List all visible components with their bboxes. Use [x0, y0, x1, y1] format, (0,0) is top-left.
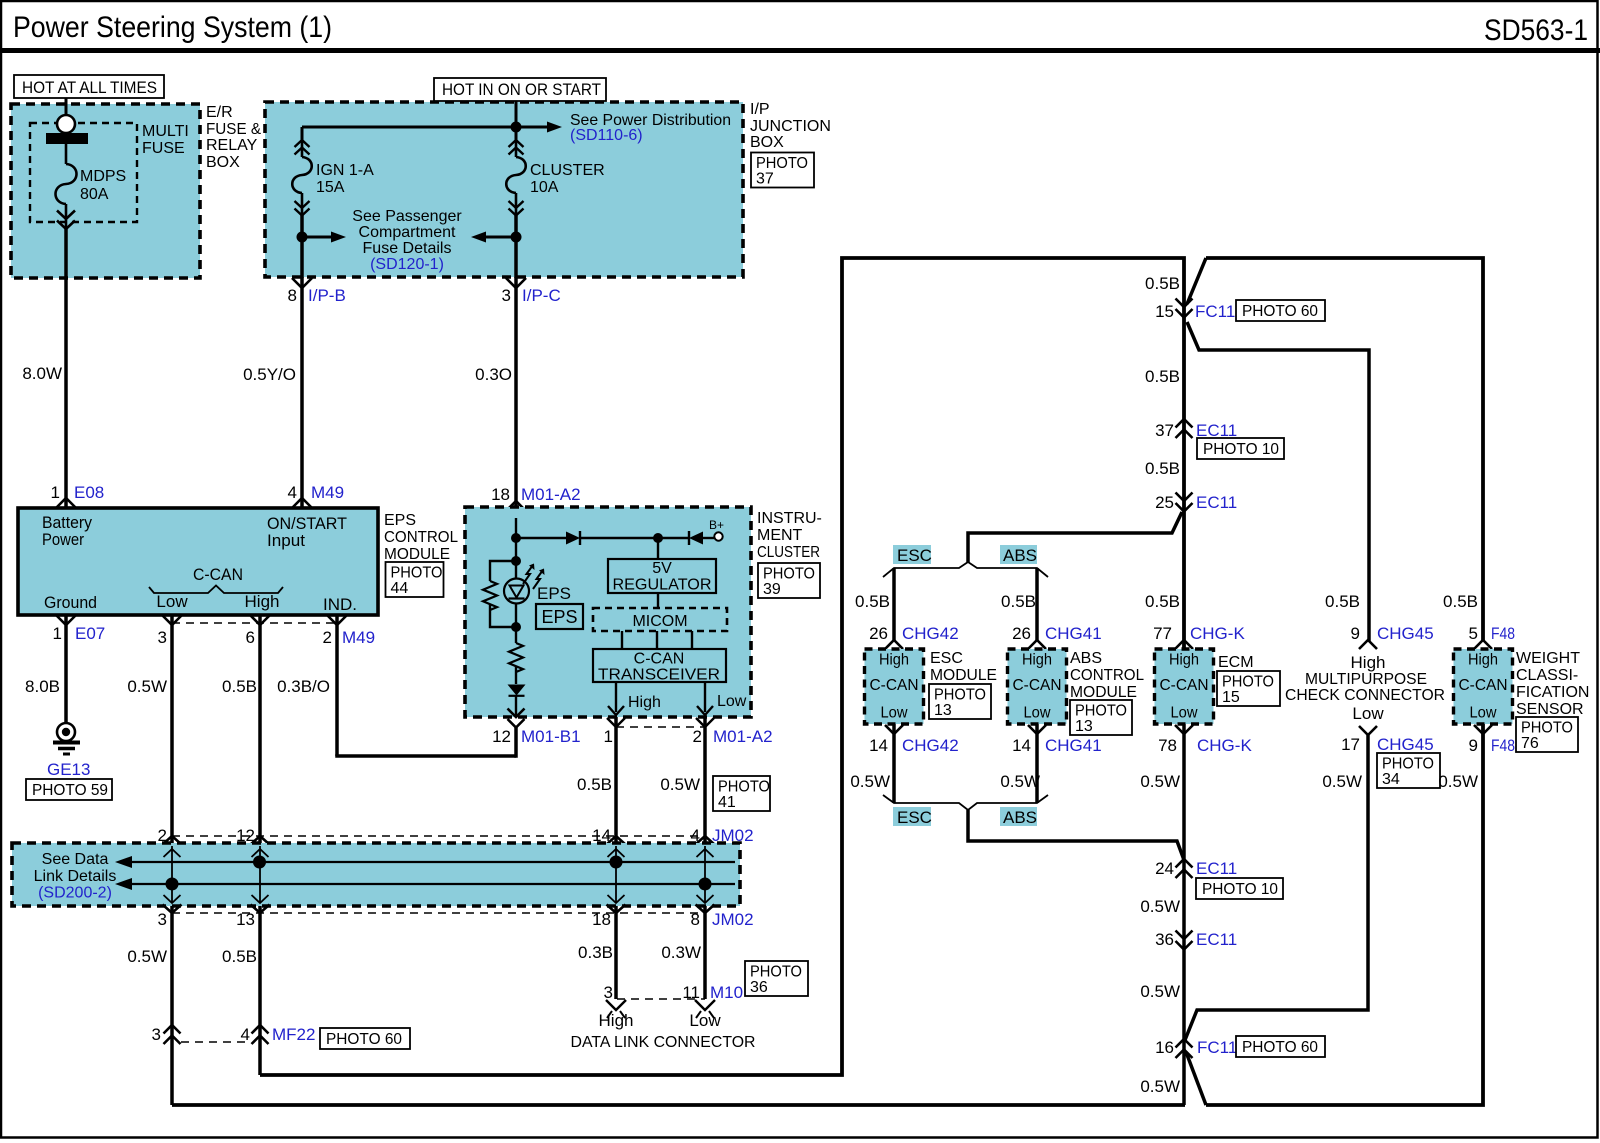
svg-text:M10: M10 — [710, 983, 743, 1002]
svg-text:REGULATOR: REGULATOR — [613, 577, 712, 594]
svg-text:39: 39 — [763, 581, 781, 598]
svg-text:36: 36 — [1155, 930, 1174, 949]
svg-text:C-CAN: C-CAN — [193, 565, 243, 584]
svg-text:0.5W: 0.5W — [660, 775, 700, 794]
svg-text:SD563-1: SD563-1 — [1484, 14, 1588, 47]
svg-text:10A: 10A — [530, 179, 559, 196]
svg-text:CHG41: CHG41 — [1045, 624, 1102, 643]
svg-text:High: High — [599, 1011, 634, 1030]
svg-text:FC11: FC11 — [1195, 302, 1235, 321]
svg-text:PHOTO 59: PHOTO 59 — [32, 782, 108, 799]
svg-text:26: 26 — [869, 624, 888, 643]
svg-text:Low: Low — [156, 592, 188, 611]
svg-text:HOT IN ON OR START: HOT IN ON OR START — [442, 80, 601, 99]
svg-text:EPS: EPS — [537, 584, 571, 603]
svg-text:MODULE: MODULE — [1070, 684, 1137, 701]
svg-text:M01-A2: M01-A2 — [521, 485, 581, 504]
svg-text:78: 78 — [1158, 736, 1177, 755]
svg-text:PHOTO: PHOTO — [1521, 720, 1573, 737]
svg-text:0.5W: 0.5W — [127, 677, 167, 696]
svg-text:0.5W: 0.5W — [1438, 772, 1478, 791]
svg-text:0.5W: 0.5W — [1140, 1077, 1180, 1096]
svg-text:Low: Low — [1470, 705, 1497, 722]
svg-text:ABS: ABS — [1070, 650, 1102, 667]
svg-text:3: 3 — [158, 910, 167, 929]
svg-text:F48: F48 — [1491, 624, 1515, 643]
svg-text:FUSE &: FUSE & — [206, 121, 261, 138]
svg-text:25: 25 — [1155, 493, 1174, 512]
svg-text:GE13: GE13 — [47, 760, 90, 779]
svg-text:Low: Low — [1024, 705, 1051, 722]
svg-text:C-CAN: C-CAN — [1459, 677, 1508, 694]
svg-text:2: 2 — [323, 628, 332, 647]
svg-text:MDPS: MDPS — [80, 168, 126, 185]
svg-text:Link Details: Link Details — [34, 868, 117, 885]
svg-text:CHG-K: CHG-K — [1190, 624, 1245, 643]
svg-text:IGN 1-A: IGN 1-A — [316, 162, 374, 179]
svg-text:FC11: FC11 — [1197, 1038, 1237, 1057]
svg-text:Low: Low — [1352, 704, 1384, 723]
svg-text:PHOTO: PHOTO — [763, 566, 815, 583]
svg-text:See Data: See Data — [42, 851, 109, 868]
svg-text:PHOTO: PHOTO — [1382, 756, 1434, 773]
svg-text:Fuse Details: Fuse Details — [363, 240, 452, 257]
svg-text:PHOTO: PHOTO — [1222, 674, 1274, 691]
svg-text:0.5B: 0.5B — [1145, 367, 1180, 386]
svg-text:EPS: EPS — [542, 607, 578, 627]
svg-text:PHOTO 10: PHOTO 10 — [1202, 881, 1278, 898]
svg-text:36: 36 — [750, 979, 768, 996]
svg-text:JUNCTION: JUNCTION — [750, 118, 831, 135]
svg-text:0.5B: 0.5B — [222, 677, 257, 696]
svg-text:M01-A2: M01-A2 — [713, 727, 773, 746]
svg-text:0.5W: 0.5W — [1140, 772, 1180, 791]
svg-text:EC11: EC11 — [1196, 930, 1237, 949]
svg-text:ESC: ESC — [897, 808, 932, 827]
svg-text:0.5B: 0.5B — [1145, 459, 1180, 478]
svg-text:1: 1 — [604, 727, 613, 746]
svg-text:76: 76 — [1521, 735, 1539, 752]
svg-text:0.3W: 0.3W — [661, 943, 701, 962]
svg-text:HOT AT ALL TIMES: HOT AT ALL TIMES — [22, 78, 157, 97]
svg-text:MULTIPURPOSE: MULTIPURPOSE — [1305, 671, 1427, 688]
svg-text:B+: B+ — [709, 518, 724, 532]
svg-text:BOX: BOX — [206, 154, 240, 171]
svg-text:Low: Low — [1171, 705, 1198, 722]
svg-text:C-CAN: C-CAN — [634, 651, 685, 668]
svg-text:RELAY: RELAY — [206, 137, 258, 154]
svg-text:FUSE: FUSE — [142, 140, 185, 157]
svg-text:0.5B: 0.5B — [1443, 592, 1478, 611]
svg-text:INSTRU-: INSTRU- — [757, 510, 822, 527]
svg-text:18: 18 — [491, 485, 510, 504]
svg-text:High: High — [879, 652, 909, 669]
svg-text:0.5W: 0.5W — [1322, 772, 1362, 791]
svg-text:C-CAN: C-CAN — [1160, 677, 1209, 694]
svg-text:MICOM: MICOM — [632, 613, 687, 630]
svg-text:SENSOR: SENSOR — [1516, 701, 1584, 718]
svg-text:ABS: ABS — [1003, 546, 1037, 565]
svg-text:M01-B1: M01-B1 — [521, 727, 581, 746]
svg-text:PHOTO: PHOTO — [718, 779, 770, 796]
svg-text:EPS: EPS — [384, 512, 416, 529]
svg-text:PHOTO 10: PHOTO 10 — [1203, 441, 1279, 458]
svg-text:Power: Power — [42, 530, 84, 549]
svg-text:CONTROL: CONTROL — [1070, 667, 1144, 684]
svg-text:26: 26 — [1012, 624, 1031, 643]
svg-text:8.0B: 8.0B — [25, 677, 60, 696]
svg-text:37: 37 — [756, 171, 774, 188]
svg-text:CLASSI-: CLASSI- — [1516, 667, 1578, 684]
svg-text:9: 9 — [1351, 624, 1360, 643]
svg-text:PHOTO: PHOTO — [756, 155, 808, 172]
svg-text:Low: Low — [717, 693, 747, 710]
svg-text:2: 2 — [693, 727, 702, 746]
svg-text:E/R: E/R — [206, 104, 233, 121]
svg-text:I/P: I/P — [750, 101, 770, 118]
svg-text:1: 1 — [53, 624, 62, 643]
svg-text:0.5W: 0.5W — [1140, 897, 1180, 916]
svg-text:ECM: ECM — [1218, 654, 1254, 671]
svg-text:CHG42: CHG42 — [902, 624, 959, 643]
svg-text:MF22: MF22 — [272, 1025, 315, 1044]
svg-text:ESC: ESC — [897, 546, 932, 565]
svg-text:0.3B/O: 0.3B/O — [277, 677, 330, 696]
svg-text:CHECK CONNECTOR: CHECK CONNECTOR — [1285, 687, 1445, 704]
svg-text:CONTROL: CONTROL — [384, 529, 458, 546]
svg-text:13: 13 — [1075, 718, 1093, 735]
svg-text:PHOTO 60: PHOTO 60 — [326, 1031, 402, 1048]
svg-text:77: 77 — [1153, 624, 1172, 643]
svg-text:CHG45: CHG45 — [1377, 624, 1434, 643]
svg-text:MODULE: MODULE — [384, 546, 450, 563]
svg-text:High: High — [1022, 652, 1052, 669]
svg-text:DATA LINK CONNECTOR: DATA LINK CONNECTOR — [571, 1034, 756, 1051]
svg-text:9: 9 — [1469, 736, 1478, 755]
svg-text:8: 8 — [288, 286, 297, 305]
svg-text:EC11: EC11 — [1196, 859, 1237, 878]
svg-text:14: 14 — [1012, 736, 1031, 755]
svg-text:3: 3 — [604, 983, 613, 1002]
svg-text:CHG45: CHG45 — [1377, 735, 1434, 754]
svg-text:CHG-K: CHG-K — [1197, 736, 1252, 755]
svg-text:8.0W: 8.0W — [22, 364, 62, 383]
svg-text:CLUSTER: CLUSTER — [530, 162, 605, 179]
svg-text:TRANSCEIVER: TRANSCEIVER — [598, 667, 720, 684]
svg-text:0.5B: 0.5B — [577, 775, 612, 794]
svg-text:0.5Y/O: 0.5Y/O — [243, 365, 296, 384]
svg-text:Low: Low — [881, 705, 908, 722]
svg-text:FICATION: FICATION — [1516, 684, 1589, 701]
svg-text:0.5B: 0.5B — [222, 947, 257, 966]
svg-text:M49: M49 — [311, 483, 344, 502]
svg-text:0.5B: 0.5B — [855, 592, 890, 611]
svg-text:15A: 15A — [316, 179, 345, 196]
svg-text:44: 44 — [391, 580, 409, 597]
svg-text:Low: Low — [689, 1011, 721, 1030]
svg-text:0.5B: 0.5B — [1001, 592, 1036, 611]
svg-text:High: High — [1351, 653, 1386, 672]
svg-text:MENT: MENT — [757, 527, 803, 544]
svg-text:High: High — [1468, 652, 1498, 669]
svg-text:(SD120-1): (SD120-1) — [370, 256, 444, 273]
svg-text:0.5B: 0.5B — [1325, 592, 1360, 611]
svg-text:13: 13 — [236, 910, 255, 929]
svg-text:24: 24 — [1155, 859, 1174, 878]
svg-text:4: 4 — [241, 1025, 250, 1044]
svg-text:0.5B: 0.5B — [1145, 592, 1180, 611]
svg-text:M49: M49 — [342, 628, 375, 647]
svg-text:80A: 80A — [80, 186, 109, 203]
svg-text:5: 5 — [1469, 624, 1478, 643]
svg-text:0.5W: 0.5W — [850, 772, 890, 791]
svg-text:34: 34 — [1382, 771, 1400, 788]
svg-text:PHOTO: PHOTO — [391, 565, 443, 582]
svg-text:E08: E08 — [74, 483, 104, 502]
svg-text:6: 6 — [246, 628, 255, 647]
svg-text:CLUSTER: CLUSTER — [757, 544, 820, 561]
svg-text:MULTI: MULTI — [142, 123, 189, 140]
svg-text:16: 16 — [1155, 1038, 1174, 1057]
svg-text:PHOTO: PHOTO — [1075, 703, 1127, 720]
svg-text:High: High — [628, 694, 661, 711]
svg-text:1: 1 — [51, 483, 60, 502]
svg-text:ABS: ABS — [1003, 808, 1037, 827]
svg-text:14: 14 — [869, 736, 888, 755]
svg-text:4: 4 — [288, 483, 297, 502]
svg-text:3: 3 — [158, 628, 167, 647]
svg-text:41: 41 — [718, 794, 736, 811]
svg-text:PHOTO 60: PHOTO 60 — [1242, 303, 1318, 320]
svg-text:PHOTO: PHOTO — [750, 964, 802, 981]
svg-text:3: 3 — [152, 1025, 161, 1044]
svg-text:0.5W: 0.5W — [1000, 772, 1040, 791]
svg-text:MODULE: MODULE — [930, 667, 997, 684]
svg-text:3: 3 — [502, 286, 511, 305]
svg-text:C-CAN: C-CAN — [1013, 677, 1062, 694]
svg-text:C-CAN: C-CAN — [870, 677, 919, 694]
svg-text:High: High — [245, 592, 280, 611]
svg-text:Input: Input — [267, 531, 305, 550]
svg-text:0.5B: 0.5B — [1145, 274, 1180, 293]
svg-text:JM02: JM02 — [712, 910, 754, 929]
svg-text:IND.: IND. — [323, 595, 357, 614]
svg-text:BOX: BOX — [750, 134, 784, 151]
svg-text:(SD200-2): (SD200-2) — [38, 885, 112, 902]
svg-text:PHOTO 60: PHOTO 60 — [1242, 1039, 1318, 1056]
svg-text:18: 18 — [592, 910, 611, 929]
svg-text:CHG42: CHG42 — [902, 736, 959, 755]
svg-text:Ground: Ground — [44, 593, 97, 612]
svg-text:13: 13 — [934, 702, 952, 719]
svg-text:Power Steering System (1): Power Steering System (1) — [13, 11, 332, 44]
svg-text:(SD110-6): (SD110-6) — [570, 127, 643, 144]
svg-text:See Passenger: See Passenger — [352, 208, 462, 225]
svg-text:15: 15 — [1222, 689, 1240, 706]
svg-text:15: 15 — [1155, 302, 1174, 321]
svg-text:High: High — [1169, 652, 1199, 669]
svg-text:I/P-B: I/P-B — [308, 286, 346, 305]
svg-text:Compartment: Compartment — [359, 224, 456, 241]
svg-text:8: 8 — [691, 910, 700, 929]
svg-text:12: 12 — [492, 727, 511, 746]
svg-text:E07: E07 — [75, 624, 105, 643]
svg-text:ESC: ESC — [930, 650, 963, 667]
svg-text:F48: F48 — [1491, 736, 1515, 755]
svg-text:0.3B: 0.3B — [578, 943, 613, 962]
svg-text:37: 37 — [1155, 421, 1174, 440]
svg-text:EC11: EC11 — [1196, 493, 1237, 512]
svg-text:5V: 5V — [652, 560, 672, 577]
svg-text:CHG41: CHG41 — [1045, 736, 1102, 755]
svg-text:0.5W: 0.5W — [1140, 982, 1180, 1001]
svg-text:17: 17 — [1341, 735, 1360, 754]
svg-text:PHOTO: PHOTO — [934, 687, 986, 704]
svg-text:WEIGHT: WEIGHT — [1516, 650, 1580, 667]
svg-text:I/P-C: I/P-C — [522, 286, 561, 305]
svg-text:0.5W: 0.5W — [127, 947, 167, 966]
svg-text:0.3O: 0.3O — [475, 365, 512, 384]
